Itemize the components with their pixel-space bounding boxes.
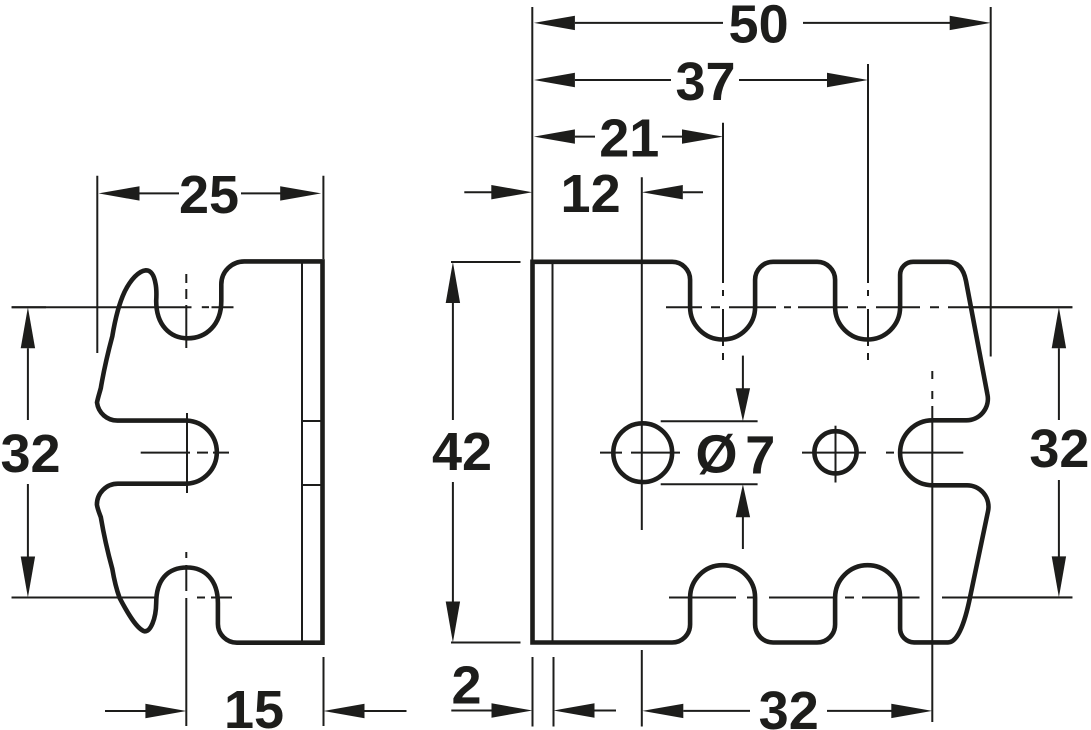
left view row2 marks [141,452,190,454]
ext notch1 center / 21 [722,123,724,283]
row2 centerline pieces [600,452,622,454]
dim 37 [534,52,868,112]
front view outline [533,262,989,643]
row3 centerline right view [669,597,1072,599]
svg-text:50: 50 [729,0,789,54]
ext left32 bottom [12,597,46,599]
left view row3 marks [12,597,157,599]
hole2 vertical mark [835,426,837,483]
finger cut tick bottom [302,484,321,486]
left view middle finger vertical mark [186,413,188,493]
finger cut tick top [302,420,321,422]
dim Ø7 tangent lines [661,420,758,422]
svg-text:37: 37 [675,52,735,112]
svg-text:7: 7 [745,425,775,485]
ext plate left [531,7,533,260]
hole 1 Ø7 [613,423,672,482]
ext 42 bottom [451,642,521,644]
ext 42 top [451,261,521,263]
left view row1 marks [12,306,192,308]
svg-text:25: 25 [179,165,239,225]
ext notch2 center / 37 [867,64,869,283]
hole 2 [814,431,856,473]
dim 2 [451,655,616,717]
ext hole1 center / 12 [641,177,643,530]
svg-text:32: 32 [759,681,819,730]
dim right 32 [1029,307,1089,597]
dim 50 [534,0,991,54]
svg-text:32: 32 [0,424,60,484]
svg-text:32: 32 [1029,419,1089,479]
ext 25 right [322,176,324,259]
svg-text:42: 42 [432,422,492,482]
left view bottom finger dashed centerline [185,552,187,726]
ext right 32 bottom [970,596,1072,598]
dim 21 [534,108,723,168]
ext 15 right [323,657,325,726]
svg-text:2: 2 [451,655,481,715]
dim Ø7 arrows [736,356,750,549]
side view outline [97,261,323,642]
tab centerline dashes [931,371,933,379]
plate thickness inner line [301,264,303,641]
bend line 2mm [552,264,554,642]
ext right edge / 50 [990,7,992,357]
svg-text:12: 12 [561,164,621,224]
dim left 32 [0,307,60,597]
ext left32 top [12,306,46,308]
svg-text:15: 15 [224,680,284,730]
ext 2 left [532,657,534,727]
dim 15 [105,680,407,730]
dim 12 [464,164,703,224]
dim bottom 32 [642,681,932,730]
svg-text:21: 21 [599,108,659,168]
svg-text:Ø: Ø [695,425,737,485]
ext right 32 top [970,306,1073,308]
dim 42 [432,262,492,643]
left view top finger dashed centerline [185,274,187,348]
row1 centerline right view [666,306,1072,308]
dim 25 [99,165,322,225]
ext 25 left [96,176,98,353]
ext 2 right [553,657,555,727]
